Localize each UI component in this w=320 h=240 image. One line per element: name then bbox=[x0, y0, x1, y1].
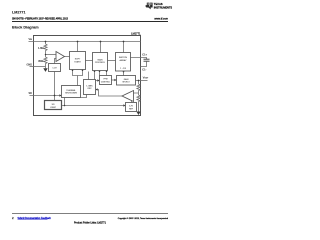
svg-text:ARRAY: ARRAY bbox=[119, 59, 127, 62]
box pfm control bbox=[100, 76, 112, 85]
svg-text:SHUTDOWN: SHUTDOWN bbox=[65, 93, 77, 95]
svg-text:Product Folder Links: LM2771: Product Folder Links: LM2771 bbox=[74, 222, 107, 225]
svg-text:SD: SD bbox=[29, 92, 33, 95]
node VIN-divider bbox=[45, 41, 47, 43]
svg-text:SWITCH: SWITCH bbox=[119, 57, 128, 59]
footer rule bbox=[12, 213, 168, 215]
junction dots bbox=[43, 41, 140, 115]
arrow into box4 bbox=[97, 79, 99, 81]
ground symbol divider bbox=[43, 68, 47, 72]
node box1 bottom b bbox=[82, 69, 84, 71]
box thermal shutdown bbox=[62, 86, 81, 98]
node box2 bottom c bbox=[106, 70, 108, 72]
svg-text:GAIN: GAIN bbox=[124, 78, 129, 81]
wire GND pin bbox=[30, 66, 46, 68]
svg-text:C1+: C1+ bbox=[142, 53, 147, 56]
resistor R2 450k bbox=[44, 57, 47, 64]
svg-text:START: START bbox=[74, 60, 81, 63]
svg-text:1 : 2/3: 1 : 2/3 bbox=[120, 68, 127, 70]
wire C1+ pin stub bbox=[131, 58, 147, 60]
node rail-box3 bbox=[123, 41, 125, 43]
svg-text:CONTROL: CONTROL bbox=[101, 81, 110, 83]
box oscillator bbox=[84, 80, 96, 95]
wire oscillator bottom to thermal shutdown bbox=[81, 95, 87, 98]
svg-text:1.1MHz: 1.1MHz bbox=[86, 85, 93, 87]
box soft start bbox=[70, 52, 86, 70]
wire feedback top bbox=[138, 81, 140, 85]
arrow into box5 bbox=[114, 79, 116, 81]
diagram outer border bbox=[34, 36, 141, 116]
wire VOUT pin bbox=[136, 80, 148, 82]
wire box1 top stub bbox=[77, 42, 79, 52]
wire comparator plus input bbox=[46, 54, 57, 56]
wire box1 to box2 bbox=[86, 60, 93, 62]
svg-text:SNVS477B –FEBRUARY 2007–REVISE: SNVS477B –FEBRUARY 2007–REVISED APRIL 20… bbox=[12, 18, 69, 21]
svg-text:SOFT: SOFT bbox=[75, 59, 81, 61]
svg-text:OSC: OSC bbox=[87, 88, 92, 90]
svg-text:450k: 450k bbox=[38, 60, 44, 63]
node box2 bottom b bbox=[99, 70, 101, 72]
box switch array bbox=[116, 53, 131, 72]
wire thermal shutdown bottom junction bbox=[64, 98, 66, 106]
svg-text:CONTROL: CONTROL bbox=[95, 62, 106, 64]
node box3 bottom bbox=[123, 71, 125, 73]
wire box2 bottom to box4 bbox=[95, 71, 98, 81]
box 1.2V sd logic small bbox=[49, 64, 61, 72]
svg-text:LM2771: LM2771 bbox=[12, 10, 26, 14]
svg-text:LM2771: LM2771 bbox=[131, 31, 141, 35]
wire box3 top stub bbox=[123, 42, 125, 53]
wire box2 top stub bbox=[100, 42, 102, 53]
svg-text:1.2V: 1.2V bbox=[52, 68, 57, 70]
arrow into reference bbox=[123, 104, 125, 106]
svg-text:VOUT: VOUT bbox=[143, 77, 149, 80]
svg-text:PFM: PFM bbox=[104, 79, 108, 81]
svg-text:1.3M: 1.3M bbox=[38, 47, 44, 50]
wire box1 bottom converge to thermal shutdown bbox=[73, 70, 83, 86]
svg-text:C1-: C1- bbox=[142, 68, 146, 71]
node SD junction bbox=[54, 95, 56, 97]
wire error amp output to oscillator bbox=[97, 90, 122, 97]
wire reference to error amp bbox=[131, 100, 133, 102]
node VOUT feedback bbox=[138, 80, 140, 82]
node rail-box1 bbox=[77, 41, 79, 43]
pin labels bbox=[26, 38, 149, 95]
wire SD logic to comparator minus bbox=[55, 59, 57, 64]
resistor R3 feedback upper bbox=[137, 84, 140, 92]
node rail-box2 bbox=[100, 41, 102, 43]
box gain select bbox=[117, 76, 136, 86]
capacitor C1 plates bbox=[144, 59, 150, 61]
header rule bbox=[12, 21, 168, 23]
error amp U2 bbox=[122, 91, 134, 102]
resistor R4 feedback lower bbox=[137, 95, 140, 103]
wire SD pin bbox=[30, 95, 60, 97]
wire feedback bottom to ground bbox=[138, 103, 140, 112]
wire box4 to box5 bbox=[112, 79, 115, 81]
wire VIN rail bbox=[29, 41, 141, 43]
svg-text:SELECT: SELECT bbox=[122, 82, 130, 84]
svg-text:www.ti.com: www.ti.com bbox=[154, 17, 168, 21]
wire box2 bottom stub right bbox=[106, 71, 108, 76]
wire divider top bbox=[45, 42, 47, 45]
svg-text:GND: GND bbox=[26, 64, 32, 67]
svg-text:INSTRUMENTS: INSTRUMENTS bbox=[154, 6, 173, 9]
wire C1- pin stub bbox=[141, 61, 147, 66]
svg-text:THERMAL: THERMAL bbox=[66, 89, 76, 92]
arrow into oscillator bbox=[96, 88, 98, 90]
wire divider bottom bbox=[45, 64, 47, 69]
node boxC output junction bbox=[64, 105, 66, 107]
resistor R1 1.3M bbox=[44, 44, 47, 52]
wire box2 to box3 bbox=[108, 60, 116, 62]
svg-text:LOGIC: LOGIC bbox=[50, 107, 57, 109]
node box2 bottom a bbox=[94, 70, 96, 72]
svg-text:GAIN: GAIN bbox=[97, 58, 103, 61]
box 1.2V reference bbox=[126, 103, 137, 112]
wire box2 bottom stub mid bbox=[99, 71, 101, 76]
wire boxC output to reference bbox=[62, 105, 124, 107]
TI logo bug bbox=[146, 3, 153, 10]
wire SD logic vertical bbox=[54, 72, 56, 101]
arrow into thermal shutdown SD bbox=[59, 94, 61, 96]
node divider tap bbox=[45, 54, 47, 56]
box sd logic lower bbox=[45, 101, 62, 110]
svg-text:Copyright © 2007–2013, Texas I: Copyright © 2007–2013, Texas Instruments… bbox=[118, 217, 168, 220]
wire feedback tap to error amp bbox=[134, 92, 139, 96]
wire box3 bottom to box5 top bbox=[123, 71, 125, 76]
node box1 bottom a bbox=[72, 69, 74, 71]
wire divider mid bbox=[45, 52, 47, 58]
comparator U1 vin ok bbox=[56, 52, 65, 62]
svg-text:Block Diagram: Block Diagram bbox=[12, 25, 39, 29]
ground symbol feedback bbox=[136, 112, 140, 116]
block text labels bbox=[50, 57, 134, 110]
boxes bbox=[45, 52, 137, 112]
box gain control bbox=[93, 53, 108, 71]
wire oscillator top stub bbox=[88, 72, 90, 80]
wire comparator output bbox=[65, 56, 70, 58]
